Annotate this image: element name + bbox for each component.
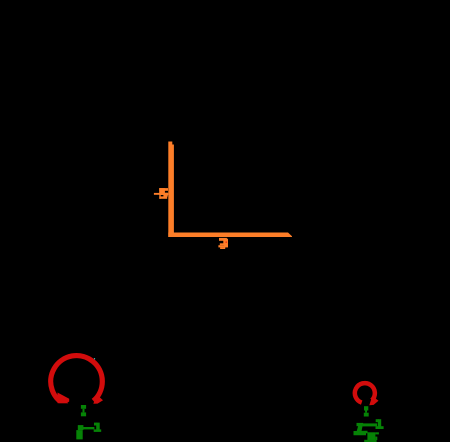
value label 5: [159, 188, 168, 199]
artifact cyan dot on left loop: [94, 358, 95, 359]
right red loop: [355, 383, 379, 405]
node I marker (left): [81, 405, 86, 416]
wire: orange horizontal segment (length 3): [168, 233, 292, 238]
tick mark for label 5: [154, 193, 160, 195]
wire: orange vertical segment (length 5): [168, 142, 174, 238]
node I marker (right): [364, 406, 369, 416]
artifact red dot in 3: [226, 242, 227, 243]
left label f^-1: [76, 423, 101, 440]
value label 3: [218, 238, 228, 249]
left red loop: [51, 356, 103, 406]
black trim under left loop end: [52, 403, 79, 411]
right label L_K^-1: [354, 419, 384, 442]
